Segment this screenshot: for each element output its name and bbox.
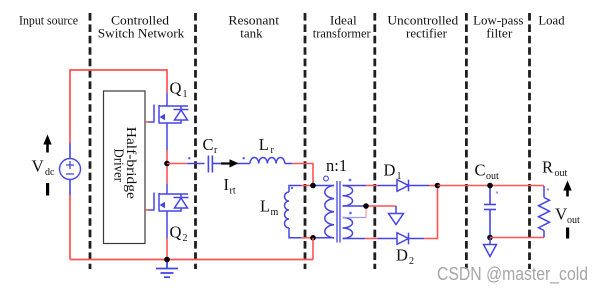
wire: output top rail xyxy=(438,185,545,187)
svg-text:out: out xyxy=(486,171,499,182)
diode D1 xyxy=(397,180,429,192)
gate wire Q1 xyxy=(145,121,154,123)
section label: Ideal transformer xyxy=(313,13,372,41)
polarity dot Cout xyxy=(496,191,498,193)
svg-text:tank: tank xyxy=(240,26,263,41)
svg-text:V: V xyxy=(32,157,45,176)
label Vdc with polarity arrow xyxy=(32,135,56,196)
label Cout xyxy=(475,161,500,183)
svg-text:Q: Q xyxy=(170,79,182,98)
dashed boundary 1 xyxy=(89,13,92,269)
svg-text:1: 1 xyxy=(397,171,402,182)
svg-text:Q: Q xyxy=(170,223,182,242)
wire: Lr to transformer primary top node xyxy=(285,164,313,186)
voltage source V leads xyxy=(69,143,71,159)
gate wire Q2 xyxy=(145,209,154,211)
wire: primary top node to Lm xyxy=(289,186,313,193)
wire: bottom rail xyxy=(70,259,313,261)
inductor Lr xyxy=(250,158,285,164)
svg-text:D: D xyxy=(396,246,408,265)
wire: secondary bottom to D2 xyxy=(343,238,398,240)
wire: output bottom rail xyxy=(490,237,544,239)
wire: Lm bottom to primary bottom node xyxy=(289,228,313,238)
svg-text:filter: filter xyxy=(486,26,513,41)
svg-text:D: D xyxy=(384,161,396,180)
transformer T1 primary winding xyxy=(313,186,334,238)
polarity mark secondary bottom xyxy=(349,212,352,215)
current arrow Irt xyxy=(221,159,239,167)
wire: left input rail lower xyxy=(69,195,71,260)
label Vout with polarity arrow xyxy=(555,181,580,239)
transformer secondary top winding xyxy=(343,186,353,207)
node: primary bottom xyxy=(310,235,316,241)
wire: primary bottom node to bottom rail xyxy=(312,238,314,260)
inductor Lm xyxy=(285,192,290,228)
label Rout xyxy=(542,158,568,180)
wire: secondary top to D1 xyxy=(343,185,398,187)
svg-text:out: out xyxy=(567,215,580,226)
polarity mark primary xyxy=(324,176,329,181)
dashed boundary 4 xyxy=(373,13,376,269)
section label: Uncontrolled rectifier xyxy=(387,13,458,41)
section label: Low-pass filter xyxy=(473,13,523,41)
svg-text:C: C xyxy=(203,135,214,154)
svg-text:n:1: n:1 xyxy=(326,156,347,175)
svg-text:Switch Network: Switch Network xyxy=(98,26,185,41)
node: Cout top xyxy=(487,183,493,189)
svg-text:Input source: Input source xyxy=(19,13,78,28)
dashed boundary 5 xyxy=(465,13,468,269)
ground (triangle) under Cout xyxy=(484,238,497,257)
dashed boundary 6 xyxy=(528,13,531,269)
svg-text:L: L xyxy=(259,135,269,154)
wire: midpoint to Cr xyxy=(167,163,205,165)
svg-text:CSDN @master_cold: CSDN @master_cold xyxy=(437,264,588,285)
node: rectifier output xyxy=(435,183,441,189)
label D2 xyxy=(396,246,414,268)
svg-text:transformer: transformer xyxy=(313,26,372,41)
svg-text:Driver: Driver xyxy=(110,149,125,183)
svg-text:2: 2 xyxy=(183,233,188,244)
node: Cout bottom xyxy=(487,235,493,241)
svg-text:2: 2 xyxy=(409,256,414,267)
svg-text:dc: dc xyxy=(45,167,55,178)
polarity dot before Cr xyxy=(188,157,190,159)
transformer secondary bottom winding xyxy=(343,218,353,239)
node: bottom rail / ground xyxy=(164,257,170,263)
capacitor Cout xyxy=(484,186,496,238)
svg-text:r: r xyxy=(214,145,218,156)
section label: Load xyxy=(538,13,565,28)
label D1 xyxy=(384,161,402,183)
dashed boundary 2 xyxy=(194,13,197,269)
wire: midpoint node down to Q2 drain xyxy=(166,164,168,185)
transformer core xyxy=(337,181,340,243)
polarity mark secondary top xyxy=(349,179,352,182)
section label: Resonant tank xyxy=(228,13,279,41)
node: half-bridge midpoint xyxy=(164,161,170,167)
svg-text:L: L xyxy=(260,197,270,216)
diode D2 xyxy=(397,233,424,245)
wire: top input rail xyxy=(70,70,167,143)
svg-text:rectifier: rectifier xyxy=(406,26,448,41)
resistor Rout xyxy=(539,186,550,238)
wire: Q1 source to midpoint node xyxy=(166,150,168,164)
transistor Q2 (MOSFET with body diode) xyxy=(154,193,189,239)
node: primary top xyxy=(310,183,316,189)
wire: D2 up to output node xyxy=(424,186,438,239)
label Lr xyxy=(259,135,275,156)
section label: Input source xyxy=(19,13,78,28)
node: center tap xyxy=(363,203,369,209)
voltage source Vdc xyxy=(60,159,81,180)
svg-text:R: R xyxy=(542,158,553,177)
wire: Q2 source to bottom rail xyxy=(166,238,168,260)
label Irt xyxy=(224,175,236,197)
label Lm xyxy=(260,197,279,219)
wire: center tap to ground xyxy=(343,206,397,214)
driver box U1: Half-bridge Driver xyxy=(104,91,146,244)
dashed boundary 3 xyxy=(304,13,307,269)
label Q2 xyxy=(170,223,188,245)
svg-text:r: r xyxy=(271,145,275,156)
svg-text:m: m xyxy=(271,207,279,218)
wire: secondary bottom-winding top lead xyxy=(343,206,367,218)
svg-text:Load: Load xyxy=(538,13,565,28)
wire: Cr to Lr xyxy=(221,163,250,165)
ground (triangle) at center tap xyxy=(389,214,404,225)
capacitor Cr xyxy=(208,156,221,173)
transistor Q1 (MOSFET with body diode) xyxy=(154,93,189,150)
wire: D1 to output node xyxy=(429,185,438,187)
svg-text:1: 1 xyxy=(183,89,188,100)
section label: Controlled Switch Network xyxy=(98,13,185,41)
svg-text:rt: rt xyxy=(230,186,236,197)
svg-text:out: out xyxy=(555,168,568,179)
polarity dot before Lr xyxy=(243,157,245,159)
svg-text:I: I xyxy=(224,175,230,194)
polarity dot Rout xyxy=(547,188,549,190)
svg-text:C: C xyxy=(475,161,486,180)
label Q1 xyxy=(170,79,188,101)
polarity dot Lm xyxy=(291,187,293,189)
ground (earth) under Q2 xyxy=(156,260,178,278)
label Cr xyxy=(203,135,219,156)
